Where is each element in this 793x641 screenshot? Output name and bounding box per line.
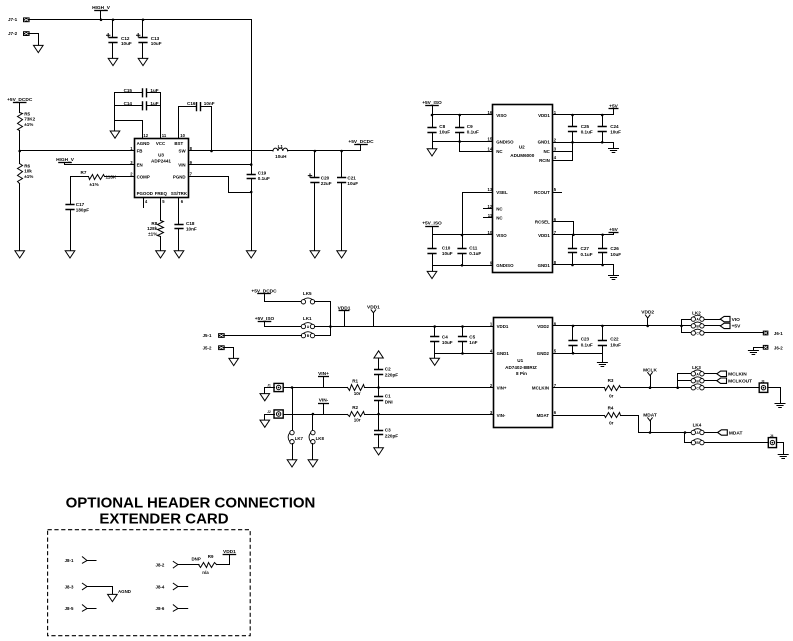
- earth ground J3: [775, 404, 785, 408]
- junction LK4 bracket: [684, 431, 687, 434]
- wire C5 top lead: [462, 327, 464, 337]
- link LK2 row A: [691, 317, 695, 321]
- wire C13 top lead: [142, 20, 144, 38]
- svg-text:J3: J3: [761, 379, 765, 383]
- wire C22 bottom lead: [602, 346, 604, 354]
- power flag VDD1 extender: [223, 554, 237, 556]
- ground R6: [15, 251, 25, 258]
- svg-text:PGOOD: PGOOD: [137, 191, 153, 196]
- wire C22 top lead: [602, 326, 604, 341]
- wire C9 top lead: [459, 115, 461, 128]
- svg-text:HIGH_V: HIGH_V: [92, 5, 111, 11]
- wire C12 top lead: [112, 20, 114, 38]
- capacitor C15: [143, 88, 147, 97]
- shield triangle above C2: [374, 351, 383, 358]
- resistor R5: [18, 113, 23, 131]
- junction C filter VIN-: [377, 413, 380, 416]
- capacitor C19: [247, 175, 256, 179]
- svg-text:0r: 0r: [609, 421, 614, 426]
- wire AGND bus: [114, 93, 116, 131]
- connector J4 SMB: [768, 438, 776, 448]
- wire LK8 column: [312, 415, 314, 431]
- wire LK2C to J6-1: [705, 332, 763, 334]
- junction C25 tap: [571, 114, 574, 117]
- wire J6-2 to earth: [754, 348, 763, 351]
- svg-text:VDD2: VDD2: [641, 310, 654, 316]
- svg-text:VDD1: VDD1: [367, 305, 380, 311]
- svg-text:C3: C3: [385, 427, 391, 432]
- header pin J8-6: [173, 605, 187, 611]
- svg-text:U3: U3: [158, 153, 164, 158]
- wire R5 to FB node: [19, 131, 21, 151]
- svg-text:C2: C2: [385, 366, 391, 371]
- wire C21 top lead: [341, 151, 343, 178]
- junction C21 tap: [340, 150, 343, 153]
- wire VDD2 flag stem: [647, 319, 649, 326]
- resistor R9: [199, 563, 217, 568]
- power flag +5V p7: [609, 232, 619, 234]
- svg-text:GND2: GND2: [537, 351, 550, 356]
- op-amp U3 ADP2441 body: [135, 139, 189, 198]
- svg-text:R1: R1: [352, 378, 358, 383]
- wire C11 bottom lead: [462, 254, 464, 266]
- svg-text:MDAT: MDAT: [643, 413, 657, 419]
- ground U2 left bottom: [427, 271, 437, 278]
- wire LK3 B stub: [678, 380, 692, 382]
- svg-text:0.1uF: 0.1uF: [467, 129, 479, 134]
- svg-text:10uF: 10uF: [442, 340, 453, 345]
- svg-text:8 Pin: 8 Pin: [516, 371, 527, 376]
- svg-text:LK1: LK1: [303, 316, 312, 321]
- svg-text:R2: R2: [352, 405, 358, 410]
- svg-text:C5: C5: [469, 334, 475, 339]
- wire LK7 column: [292, 388, 294, 431]
- wire J7-2 to ground: [30, 34, 39, 46]
- svg-text:U1: U1: [517, 358, 523, 363]
- capacitor C10: [427, 249, 436, 254]
- wire C1 top lead: [378, 388, 380, 397]
- svg-text:DNP: DNP: [192, 556, 201, 561]
- svg-text:AGND: AGND: [137, 141, 150, 146]
- junction C26 tap: [601, 234, 604, 237]
- svg-text:+5V_DCDC: +5V_DCDC: [7, 97, 33, 103]
- ground C21: [337, 251, 347, 258]
- wire LK2 A stub: [682, 319, 692, 321]
- link LK8: [311, 430, 315, 434]
- wire LK3B to MCLKOUT tag: [705, 380, 717, 382]
- junction HIGH_V stem: [100, 19, 103, 22]
- svg-text:C20: C20: [321, 175, 330, 180]
- capacitor C11: [457, 249, 466, 254]
- wire C5 bottom lead: [462, 342, 464, 354]
- wire R1 to VIN+ pin: [365, 387, 494, 389]
- svg-text:MDAT: MDAT: [729, 430, 743, 436]
- svg-text:GND1: GND1: [538, 139, 551, 144]
- wire J2 shell gnd: [265, 415, 275, 421]
- wire FB node to R6: [19, 151, 21, 164]
- svg-text:J8-5: J8-5: [65, 606, 74, 611]
- svg-text:C14: C14: [124, 101, 133, 106]
- svg-text:MCLKIN: MCLKIN: [728, 372, 747, 378]
- svg-text:C4: C4: [442, 334, 448, 339]
- svg-text:C18: C18: [186, 221, 195, 226]
- ground C18: [174, 251, 184, 258]
- capacitor C1: [374, 397, 383, 401]
- wire HIGHV to C19: [251, 165, 253, 175]
- svg-text:118K: 118K: [106, 174, 117, 179]
- svg-text:10uF: 10uF: [610, 130, 621, 135]
- svg-text:MDAT: MDAT: [537, 413, 550, 418]
- svg-text:J2: J2: [267, 410, 271, 414]
- wire +5V stem p1: [613, 109, 615, 115]
- power flag +5V_ISO top: [425, 105, 439, 107]
- wire R9 to VDD1: [217, 555, 230, 565]
- wire VIN- flag stem: [323, 404, 325, 415]
- capacitor C23: [568, 341, 577, 346]
- wire C14 right lead: [147, 105, 161, 107]
- junction MCLK flag: [649, 386, 652, 389]
- ground J1: [260, 394, 270, 401]
- wire +5V_ISO to LK1: [265, 322, 302, 327]
- svg-text:GND1: GND1: [497, 351, 510, 356]
- wire BST pin10 to C16: [179, 107, 197, 139]
- ground AGND: [108, 594, 118, 601]
- capacitor C8: [427, 128, 436, 133]
- svg-text:J7-2: J7-2: [8, 31, 18, 36]
- svg-text:MCLKOUT: MCLKOUT: [728, 379, 752, 385]
- wire LK2 B stub: [682, 325, 692, 327]
- svg-text:COMP: COMP: [137, 174, 150, 179]
- svg-text:10uF: 10uF: [347, 181, 358, 186]
- capacitor C26: [598, 249, 607, 253]
- junction C16-SW: [210, 150, 213, 153]
- svg-text:R7: R7: [81, 170, 87, 175]
- isolator U2 ADUM6000 body: [493, 105, 553, 273]
- svg-text:GNDISO: GNDISO: [496, 139, 514, 144]
- svg-text:C1: C1: [385, 394, 391, 399]
- wire C24 bottom lead: [602, 132, 604, 143]
- link LK5: [301, 300, 305, 304]
- junction C24 tap: [601, 114, 604, 117]
- svg-text:OPTIONAL HEADER CONNECTION: OPTIONAL HEADER CONNECTION: [66, 495, 316, 512]
- resistor R4: [605, 413, 621, 418]
- svg-text:10r: 10r: [354, 418, 361, 423]
- svg-text:FREQ: FREQ: [155, 191, 168, 196]
- svg-text:0.1uF: 0.1uF: [258, 176, 270, 181]
- svg-text:ADUM6000: ADUM6000: [510, 153, 534, 158]
- junction RCSEL-VDD1: [572, 234, 575, 237]
- connector J6-2: [763, 345, 769, 350]
- junction FB divider: [18, 150, 21, 153]
- junction C24 gnd: [601, 141, 604, 144]
- svg-text:10uF: 10uF: [610, 343, 621, 348]
- link LK4 row B: [691, 440, 695, 444]
- header pin J8-1: [82, 557, 96, 563]
- wire SS to C18: [178, 198, 180, 225]
- header pin J8-4: [173, 583, 187, 589]
- junction C9 gnd: [458, 140, 461, 143]
- capacitor C20: [310, 178, 319, 183]
- junction C9 tap: [458, 114, 461, 117]
- wire SW line: [189, 150, 273, 152]
- wire C4 bottom lead: [434, 342, 436, 354]
- svg-text:ADP2441: ADP2441: [151, 159, 171, 164]
- capacitor C24: [598, 127, 607, 132]
- wire R6 to ground: [19, 184, 21, 251]
- junction MDAT flag: [649, 431, 652, 434]
- wire C21 to ground: [341, 183, 343, 251]
- wire MDAT flag stem: [650, 421, 652, 433]
- junction C5 tap: [461, 325, 464, 328]
- connector J3 SMB: [759, 383, 768, 392]
- wire C15 right lead: [147, 92, 161, 94]
- wire GND1 line U1: [435, 353, 494, 355]
- wire LK3C to J3: [705, 387, 760, 389]
- wire NC11 stub: [484, 217, 493, 219]
- resistor R2: [348, 412, 365, 417]
- svg-text:n/a: n/a: [202, 570, 209, 575]
- svg-text:C24: C24: [610, 124, 619, 129]
- svg-text:NC: NC: [496, 206, 503, 211]
- wire NC14 tie: [460, 142, 493, 152]
- svg-text:J8-4: J8-4: [156, 585, 165, 590]
- header pin J8-5: [82, 605, 96, 611]
- svg-text:10: 10: [180, 133, 185, 138]
- ground J5-2: [229, 358, 239, 365]
- power flag +5V_ISO lk1: [258, 321, 272, 323]
- svg-text:J8-3: J8-3: [65, 585, 74, 590]
- svg-text:BST: BST: [174, 141, 183, 146]
- wire C8 top lead: [432, 115, 434, 128]
- dashed extender card outline: [48, 530, 251, 636]
- capacitor C12: [108, 38, 117, 43]
- power flag VIN-: [318, 403, 329, 405]
- svg-text:NC: NC: [496, 215, 503, 220]
- wire VDD1 arrow stem: [373, 313, 375, 327]
- link LK3 row A: [691, 372, 695, 376]
- net tag MCLKOUT: [717, 378, 727, 383]
- wire C2 bottom lead: [378, 375, 380, 388]
- wire EN from HIGH_V: [65, 163, 135, 165]
- svg-text:J6-2: J6-2: [774, 345, 783, 350]
- svg-text:C8: C8: [439, 124, 445, 129]
- wire C2 top lead: [378, 359, 380, 370]
- power flag +5V p1: [609, 108, 619, 110]
- wire LK2 bracket: [681, 320, 683, 333]
- earth ground GND2: [597, 363, 607, 367]
- power flag HIGH_V: [94, 10, 108, 12]
- junction C22 tap: [601, 325, 604, 328]
- svg-text:+5V: +5V: [732, 324, 741, 330]
- wire C23 top lead: [572, 326, 574, 341]
- wire HIGH_V rail from J7-1: [30, 20, 252, 165]
- svg-text:C22: C22: [610, 337, 619, 342]
- svg-text:L1: L1: [278, 144, 284, 149]
- wire LK7 to ground: [292, 444, 294, 460]
- wire RCSEL tie: [553, 222, 574, 235]
- ground C19: [246, 251, 256, 258]
- junction C4 tap: [433, 325, 436, 328]
- capacitor C16: [197, 102, 201, 111]
- svg-text:128k: 128k: [147, 226, 158, 231]
- svg-text:R9: R9: [208, 554, 214, 559]
- earth ground p2: [609, 149, 619, 153]
- wire R2 to VIN- pin: [365, 414, 494, 416]
- svg-text:EXTENDER CARD: EXTENDER CARD: [99, 511, 228, 528]
- svg-text:LK5: LK5: [303, 291, 312, 296]
- wire VCC bus to pin11: [160, 93, 162, 139]
- wire C25 bottom lead: [572, 132, 574, 143]
- capacitor C2: [374, 370, 383, 375]
- wire C9 bottom lead: [459, 133, 461, 142]
- ground J7-2: [34, 45, 44, 52]
- wire HIGH_V flag stem: [100, 11, 102, 20]
- ground C17: [65, 251, 75, 258]
- svg-text:12: 12: [143, 133, 148, 138]
- svg-text:C17: C17: [76, 202, 85, 207]
- svg-text:J4: J4: [770, 434, 774, 438]
- svg-text:C25: C25: [581, 124, 590, 129]
- wire C3 bottom lead: [378, 435, 380, 448]
- svg-text:0.1uF: 0.1uF: [469, 251, 481, 256]
- wire J1 shell gnd: [265, 388, 275, 394]
- wire NC3 stub: [553, 151, 573, 153]
- resistor R6: [18, 164, 23, 184]
- wire GND1 p8 line: [553, 264, 614, 266]
- svg-text:C16: C16: [187, 101, 196, 106]
- svg-text:220pF: 220pF: [385, 372, 398, 377]
- svg-text:LK4: LK4: [693, 422, 702, 427]
- ground C20: [310, 251, 320, 258]
- wire VIN- line: [284, 414, 348, 416]
- resistor R1: [348, 385, 365, 391]
- wire C10 top lead: [432, 235, 434, 249]
- capacitor C21: [337, 178, 346, 183]
- svg-text:AGND: AGND: [118, 589, 131, 594]
- wire RCOUT stub: [553, 192, 562, 194]
- wire C20 top lead: [314, 151, 316, 178]
- svg-text:C27: C27: [581, 246, 590, 251]
- wire GNDISO line bottom: [433, 265, 493, 267]
- wire COMP to R7: [105, 176, 135, 178]
- svg-text:VDD1: VDD1: [538, 233, 550, 238]
- capacitor C27: [568, 249, 577, 253]
- power flag +5V_DCDC left: [13, 102, 27, 104]
- connector J5-2: [218, 345, 225, 350]
- wire LK5 to bus: [315, 302, 331, 336]
- capacitor C18: [174, 225, 183, 229]
- wire MCLKIN line left: [553, 387, 605, 389]
- wire C20 to ground: [314, 183, 316, 251]
- svg-text:AD7402-8BRIZ: AD7402-8BRIZ: [505, 365, 537, 370]
- wire VDD1 bar stem: [344, 311, 346, 327]
- wire VIN+ line: [284, 387, 348, 389]
- svg-text:R3: R3: [608, 378, 614, 383]
- svg-text:NC: NC: [496, 149, 503, 154]
- wire earth stem p8: [613, 265, 615, 276]
- svg-text:10uH: 10uH: [275, 154, 287, 159]
- wire C4 top lead: [434, 327, 436, 337]
- power flag HIGH_V EN: [58, 162, 72, 164]
- wire C8 bottom lead: [432, 133, 434, 142]
- wire LK4 bracket: [685, 433, 692, 443]
- wire J5-2 to ground: [225, 348, 234, 359]
- wire FB line: [20, 150, 135, 152]
- wire FREQ to R8: [160, 198, 162, 221]
- junction C13 tap: [142, 19, 145, 22]
- link LK3 row B: [691, 379, 695, 383]
- earth ground J4: [778, 455, 788, 459]
- svg-text:VISO: VISO: [496, 233, 507, 238]
- capacitor C9: [455, 128, 464, 133]
- wire C23 bottom lead: [572, 346, 574, 354]
- svg-text:C26: C26: [610, 246, 619, 251]
- wire C13 bottom lead: [142, 43, 144, 59]
- svg-text:VCC: VCC: [156, 141, 166, 146]
- wire MCLKIN line right: [621, 387, 692, 389]
- svg-text:+5V_ISO: +5V_ISO: [422, 221, 442, 227]
- svg-text:MCLK: MCLK: [643, 367, 657, 373]
- wire MCLK flag stem: [650, 376, 652, 388]
- svg-text:+5V_DCDC: +5V_DCDC: [348, 139, 374, 145]
- svg-text:VSEL: VSEL: [496, 190, 508, 195]
- junction VIN HIGH_V: [250, 163, 253, 166]
- ground LK8: [308, 460, 318, 467]
- wire VDD2 line: [553, 325, 682, 327]
- svg-text:VDD1: VDD1: [497, 324, 509, 329]
- svg-text:EN: EN: [137, 162, 143, 167]
- ADC U1 AD7402 body: [494, 318, 553, 428]
- wire +5V_DCDC to R5: [19, 103, 21, 113]
- wire gnd stem C4: [434, 354, 436, 359]
- capacitor C17: [65, 205, 74, 210]
- svg-text:10nF: 10nF: [204, 101, 215, 106]
- wire J5-1 to LK1B: [225, 335, 302, 337]
- wire LK2 C stub: [682, 332, 692, 334]
- svg-text:10uF: 10uF: [610, 252, 621, 257]
- wire C26 bottom lead: [602, 253, 604, 265]
- junction C8 tap: [431, 114, 434, 117]
- wire VIN+ flag stem: [323, 377, 325, 388]
- svg-text:±1%: ±1%: [24, 174, 33, 179]
- wire NC3 RCIN tie: [553, 143, 573, 161]
- ground C4: [430, 358, 440, 365]
- junction LK3 bracket: [676, 386, 679, 389]
- svg-text:J5-2: J5-2: [203, 345, 212, 350]
- wire LK8 to ground: [312, 444, 314, 460]
- capacitor C3: [374, 431, 383, 435]
- ground R8: [156, 251, 166, 258]
- svg-text:VIN: VIN: [178, 162, 185, 167]
- svg-text:±1%: ±1%: [24, 122, 33, 127]
- resistor R7: [89, 175, 105, 180]
- earth ground p8: [609, 276, 619, 280]
- svg-text:GND1: GND1: [538, 263, 551, 268]
- link LK3 row C: [691, 386, 695, 390]
- junction C11 gnd: [461, 264, 464, 267]
- wire J4 to earth: [777, 443, 784, 455]
- wire J8-3 to AGND: [112, 587, 114, 595]
- net tag +5V: [720, 323, 730, 328]
- wire earth stem GND2: [602, 354, 604, 363]
- wire +5V_ISO to VISO2: [433, 227, 493, 235]
- wire VDD1 rail: [315, 326, 494, 328]
- svg-text:J8-6: J8-6: [156, 606, 165, 611]
- wire earth stem p2: [613, 143, 615, 149]
- svg-text:HIGH_V: HIGH_V: [56, 157, 75, 163]
- svg-text:C11: C11: [469, 245, 478, 250]
- wire C17 to ground: [70, 210, 72, 251]
